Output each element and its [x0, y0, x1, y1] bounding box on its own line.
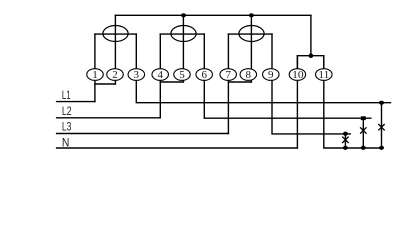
terminal 1	[87, 69, 104, 81]
wire jumper terminals 1-2	[95, 83, 116, 85]
load branch X3 phase A to neutral	[381, 103, 383, 148]
svg-text:L1: L1	[62, 88, 71, 102]
wire L2 bus	[57, 117, 161, 119]
wire terminal 11 drop and neutral load line	[324, 56, 382, 148]
svg-text:2: 2	[112, 69, 118, 81]
load branch X2 phase B to neutral	[362, 118, 364, 148]
fuse cross mark X1	[342, 137, 348, 143]
current coil CT1	[103, 26, 128, 42]
wire neutral connector over terminals 10 and 11	[297, 56, 323, 74]
wire terminal 4 drop to L2 bus	[159, 34, 161, 118]
wire current coil link phase B (terminal 4 to 6)	[160, 33, 204, 35]
svg-text:11: 11	[318, 69, 329, 81]
terminal 7	[220, 69, 237, 81]
junction dot top bus at CT3	[249, 13, 254, 17]
current coil CT2	[171, 26, 196, 42]
terminal 11	[316, 69, 333, 81]
wire current coil link phase C (terminal 7 to 9)	[228, 33, 272, 35]
junction dot phase C load at X1	[343, 132, 348, 136]
junction dot X2 bottom	[361, 146, 366, 150]
wire top voltage bus	[115, 14, 311, 16]
terminal 3	[128, 69, 145, 81]
terminal 4	[152, 69, 169, 81]
wire terminal 7 drop to L3 bus	[227, 34, 229, 133]
terminal 6	[196, 69, 213, 81]
terminal 9	[263, 69, 280, 81]
wire terminal 6 drop and phase B load line	[204, 34, 370, 118]
wire terminal 10 drop to N bus	[296, 56, 298, 148]
terminal 5	[174, 69, 191, 81]
svg-text:10: 10	[292, 69, 304, 81]
junction dot phase A load at X3	[379, 101, 384, 105]
terminal 2	[107, 69, 124, 81]
svg-text:L3: L3	[62, 119, 72, 133]
wire voltage coil drop phase B (top bus to terminal 5)	[182, 15, 184, 82]
svg-text:5: 5	[179, 69, 185, 81]
wire jumper terminals 4-5	[160, 81, 183, 83]
wire L1 bus	[57, 101, 95, 103]
wire top bus right drop to neutral junction	[310, 15, 312, 55]
junction dot neutral connector	[309, 53, 314, 58]
fuse cross mark X3	[378, 124, 384, 130]
wire terminal 3 drop and phase A load line	[136, 34, 390, 103]
terminal 10	[289, 69, 306, 81]
wire L3 bus	[57, 133, 229, 135]
svg-text:N: N	[62, 135, 70, 149]
svg-text:1: 1	[92, 69, 98, 81]
svg-text:6: 6	[201, 69, 207, 81]
wire terminal 9 drop and phase C load line	[272, 34, 350, 134]
wire voltage coil drop phase A (top bus to terminal 2)	[114, 15, 116, 84]
junction dot top bus at CT2	[181, 13, 186, 17]
junction dot X1 bottom	[343, 146, 348, 150]
wire voltage coil drop phase C (top bus to terminal 8)	[250, 15, 252, 82]
svg-text:8: 8	[246, 69, 252, 81]
svg-text:9: 9	[268, 69, 274, 81]
wire current coil link phase A (terminal 1 to 3)	[95, 33, 136, 35]
junction square phase B load at X2	[361, 116, 366, 120]
terminal 8	[240, 69, 256, 81]
junction dot X3 bottom	[379, 146, 384, 150]
fuse cross mark X2	[360, 127, 366, 133]
svg-text:4: 4	[157, 69, 163, 81]
svg-text:7: 7	[225, 69, 231, 81]
wire jumper terminals 7-8	[228, 81, 251, 83]
wire N bus	[57, 147, 298, 149]
load branch X1 phase C to neutral	[344, 134, 346, 148]
svg-text:L2: L2	[62, 104, 72, 118]
current coil CT3	[239, 26, 264, 42]
svg-text:3: 3	[134, 69, 140, 81]
wire terminal 1 drop to L1 bus	[94, 34, 96, 102]
